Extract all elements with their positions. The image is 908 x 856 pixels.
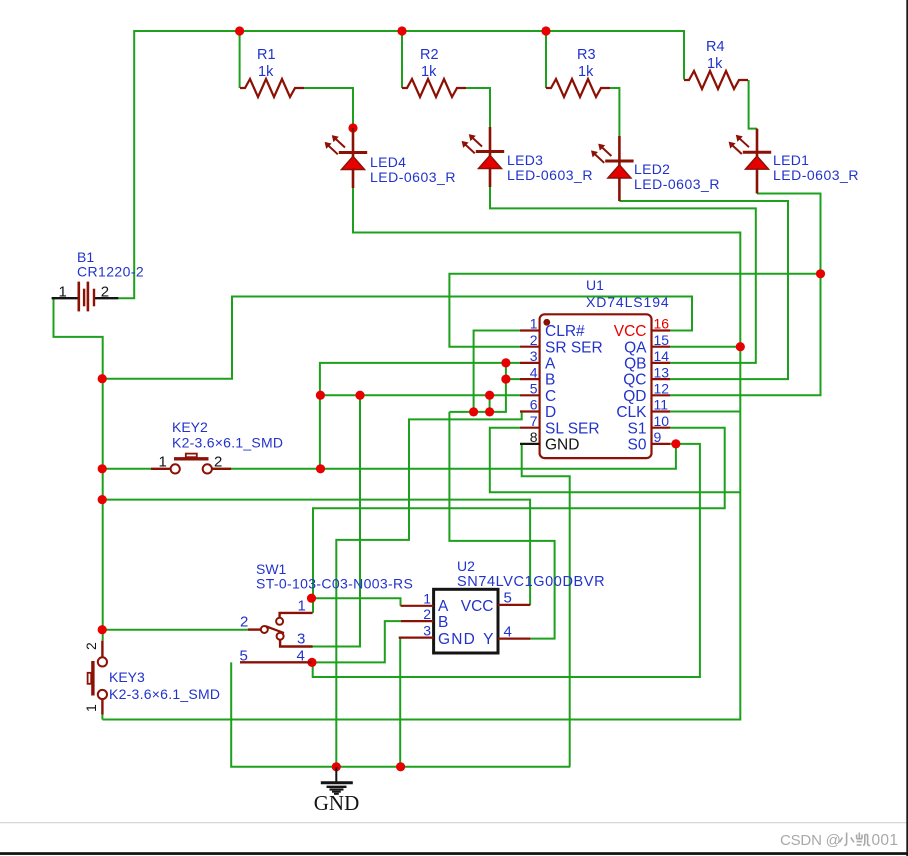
wire QD node to U1 SR SER (pin 2) [449,274,820,347]
svg-text:15: 15 [654,332,670,348]
wire supply rail vertical from battery pin1 [54,298,103,641]
resistor R2 [402,79,466,97]
wire KEY2 pin2 to S0 junction [210,468,320,470]
svg-text:1k: 1k [578,64,594,80]
wire top rail drop to R2 [401,31,403,88]
svg-text:GND: GND [438,631,476,648]
svg-text:Y: Y [483,631,493,648]
svg-text:GND: GND [545,437,579,454]
wire C row to B row bridge [489,395,491,412]
wire SW1 pin5 to ground rail [231,662,570,766]
svg-text:2: 2 [530,332,538,348]
LED1 anode lead [756,129,759,157]
svg-text:LED4: LED4 [370,154,406,170]
wire VCC net: supply rail to U1 pin16 [102,297,692,379]
junction B row [501,375,510,384]
svg-text:CLK: CLK [616,404,647,421]
wire U2 GND pin3 to ground rail [399,638,401,767]
svg-text:6: 6 [530,397,538,413]
svg-text:B: B [438,614,448,631]
resistor R1 [240,79,304,97]
svg-text:XD74LS194: XD74LS194 [586,294,670,310]
junction QA node [736,342,745,351]
svg-text:10: 10 [654,413,670,429]
svg-text:LED2: LED2 [634,161,670,177]
svg-text:2: 2 [83,642,99,650]
svg-text:LED-0603_R: LED-0603_R [773,167,859,183]
junction C row / SW1 pin3 column [355,391,364,400]
svg-text:QC: QC [623,372,646,389]
junction CLR# column [469,407,478,416]
wire U1 D (pin6) to ground column [336,412,521,767]
wire U1 CLK to junction column [670,411,740,413]
wire top rail drop to R3 [545,31,547,88]
LED1 cathode lead [756,168,759,193]
LED4 cathode lead [352,169,355,189]
resistor R4 [684,71,748,89]
svg-text:KEY3: KEY3 [109,669,145,685]
svg-text:LED-0603_R: LED-0603_R [634,176,720,192]
junction supply rail / VCC branch [98,374,107,383]
wire U1 SL SER loop [490,428,741,493]
svg-text:K2-3.6×6.1_SMD: K2-3.6×6.1_SMD [172,435,283,451]
wire U1 QA to junction [670,346,740,348]
resistor R3 [546,79,610,97]
wire LED4 cathode to U1 QA junction [353,188,740,347]
svg-text:QA: QA [624,339,647,356]
svg-text:9: 9 [654,429,662,445]
wire R4 to LED1 anode [749,80,757,129]
junction SW1 pin1 node [307,594,316,603]
wire LED2 cathode to U1 QC [619,201,788,379]
wire A/B net down to U2 Y output [449,412,554,639]
svg-text:4: 4 [530,364,538,380]
svg-text:SL SER: SL SER [545,420,600,437]
svg-text:14: 14 [654,348,670,364]
LED LED2 [605,160,633,163]
wire U1 GND (pin8) to ground rail [522,444,570,767]
svg-text:LED-0603_R: LED-0603_R [507,167,593,183]
svg-text:1: 1 [159,454,167,471]
ground symbol [335,767,337,781]
svg-text:LED1: LED1 [773,152,809,168]
junction top rail / R3 [541,26,550,35]
svg-text:2: 2 [101,284,109,301]
svg-text:2: 2 [240,614,248,631]
wire S0 to SW1 pin4 node via right drop [313,444,700,677]
IC U1 XD74LS194 body [540,314,652,458]
junction supply rail / SW1 pin2 [98,625,107,634]
U1 left pin stubs 1-8 [520,329,540,331]
svg-text:VCC: VCC [614,323,647,340]
svg-text:1: 1 [423,591,431,607]
svg-text:11: 11 [654,397,669,413]
svg-text:5: 5 [530,381,538,397]
junction C row bridge top [485,391,494,400]
wire U1 B (pin4) to A/CLR net [449,363,520,412]
svg-text:QD: QD [623,388,646,405]
junction C row / KEY2 column [316,391,325,400]
svg-text:R3: R3 [577,47,596,63]
svg-text:5: 5 [240,647,248,664]
wire SW1 pin1 node to U2 A pin1 [312,598,401,606]
wire U1 A (pin3) row [320,363,520,469]
junction top rail / R2 [397,26,406,35]
U1 right pin stubs 16-9 [652,329,671,331]
svg-text:12: 12 [654,381,670,397]
wire top rail drop to R1 [239,31,241,88]
IC U2 SN74LVC1G00DBVR body [434,589,498,653]
svg-text:A: A [438,598,449,615]
wire R1 to LED4 anode [302,88,353,128]
junction bridge bottom [485,407,494,416]
svg-text:1: 1 [83,704,99,712]
svg-text:LED-0603_R: LED-0603_R [370,169,456,185]
right edge border line [906,0,908,856]
junction supply rail / U2 VCC branch [98,495,107,504]
svg-text:1: 1 [59,284,67,301]
svg-text:LED3: LED3 [507,152,543,168]
svg-text:3: 3 [423,623,431,639]
wire R2 to LED3 anode [464,88,490,127]
svg-text:13: 13 [654,364,670,380]
svg-text:16: 16 [654,316,670,332]
wire S0 down to KEY2 pin2 line [321,444,676,469]
LED3 cathode lead [489,168,492,188]
LED4 anode lead [352,128,355,157]
svg-text:B: B [545,372,555,389]
svg-text:1k: 1k [258,64,274,80]
svg-text:K2-3.6×6.1_SMD: K2-3.6×6.1_SMD [109,686,220,702]
svg-text:U1: U1 [586,277,604,293]
svg-text:1k: 1k [707,56,723,72]
LED2 cathode lead [618,177,621,201]
svg-text:4: 4 [297,647,305,664]
junction S0 node [671,439,680,448]
svg-text:S1: S1 [628,420,647,437]
junction QD node [816,269,825,278]
push button KEY3 [101,641,103,657]
wire U1 S1 to SW1 pin1 and U2 A node [313,428,725,613]
svg-text:1: 1 [530,316,538,332]
U1 pin 1 indicator dot [543,319,550,326]
push button KEY2 [151,468,171,470]
wire R3 to LED2 anode [608,88,619,136]
wire LED1 cathode to U1 QD [670,194,820,396]
svg-text:GND: GND [314,791,360,815]
svg-text:1k: 1k [421,64,437,80]
svg-text:SR SER: SR SER [545,339,603,356]
wire supply rail to SW1 pin2 [102,629,248,631]
wire U2 B pin2 to SW1 pin4 node [312,621,401,662]
footer black bottom line [0,852,908,855]
slide switch SW1 [248,628,261,630]
svg-text:C: C [545,388,556,405]
LED3 anode lead [489,127,492,156]
junction A row [501,358,510,367]
footer light separator line [0,822,908,823]
junction LED4 anode [348,123,357,132]
LED LED3 [476,150,504,153]
wire LED3 cathode to U1 QB [490,187,756,363]
svg-text:A: A [545,356,556,373]
wire supply rail to U2 VCC pin5 [102,500,530,605]
wire KEY3 pin1 riser [101,715,103,720]
junction supply rail / KEY2 [98,464,107,473]
svg-text:7: 7 [530,413,538,429]
wire junction column QA/CLK down to KEY3 line [102,347,740,720]
svg-text:3: 3 [530,348,538,364]
wire U1 C (pin5) row [320,394,520,396]
junction SW1 pin4 node [307,658,316,667]
junction ground rail / U2 GND [396,762,405,771]
svg-text:ST-0-103-C03-N003-RS: ST-0-103-C03-N003-RS [256,576,413,592]
svg-text:QB: QB [624,356,646,373]
svg-text:4: 4 [504,624,512,641]
svg-text:3: 3 [297,631,305,648]
LED LED1 [743,151,771,154]
wire C row to SW1 pin3 [311,395,361,646]
wire U1 CLR# (pin1) [474,331,520,412]
svg-text:D: D [545,404,556,421]
svg-text:CR1220-2: CR1220-2 [77,264,144,280]
svg-text:1: 1 [298,598,306,615]
svg-text:001: 001 [872,832,899,849]
svg-text:CSDN @: CSDN @ [780,832,841,849]
junction top rail / R1 [235,26,244,35]
svg-text:2: 2 [423,606,431,622]
svg-text:S0: S0 [628,437,647,454]
svg-text:U2: U2 [457,558,475,574]
svg-text:KEY2: KEY2 [172,419,208,435]
junction KEY2 pin2 / S0 net [316,464,325,473]
wire U1 S0 stub extension [670,443,676,445]
wire battery pin2 to top rail and down to R4 [118,31,684,298]
svg-text:R2: R2 [420,47,439,63]
LED LED4 [339,151,367,154]
svg-text:R1: R1 [257,47,276,63]
junction ground rail / GND symbol [332,762,341,771]
U2 left pin stubs 1-3 [401,605,434,607]
svg-text:CLR#: CLR# [545,323,585,340]
svg-text:SN74LVC1G00DBVR: SN74LVC1G00DBVR [457,574,605,590]
svg-text:VCC: VCC [461,598,494,615]
LED2 anode lead [618,136,621,166]
svg-text:2: 2 [214,454,222,471]
svg-text:8: 8 [530,429,538,445]
svg-text:R4: R4 [706,39,725,55]
battery B1 [52,297,78,299]
svg-text:5: 5 [504,590,512,607]
U2 right pin stubs 5 and 4 [498,604,530,606]
wire supply rail to KEY2 pin1 [102,468,151,470]
